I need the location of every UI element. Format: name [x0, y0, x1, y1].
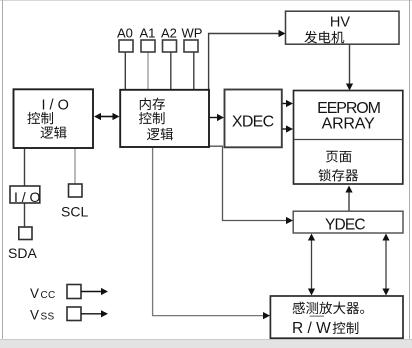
svg-text:A0: A0	[117, 26, 133, 41]
svg-text:R / W: R / W	[292, 320, 331, 337]
svg-text:EEPROM: EEPROM	[317, 100, 381, 117]
svg-text:WP: WP	[182, 26, 203, 41]
svg-text:A2: A2	[161, 26, 177, 41]
svg-text:YDEC: YDEC	[325, 217, 365, 234]
svg-text:I / O: I / O	[14, 189, 41, 205]
svg-text:SDA: SDA	[8, 245, 37, 261]
svg-text:XDEC: XDEC	[232, 114, 274, 131]
svg-text:HV: HV	[330, 14, 350, 30]
svg-text:V: V	[30, 286, 39, 301]
svg-text:I / O: I / O	[42, 97, 69, 113]
svg-text:SS: SS	[41, 312, 55, 323]
svg-text:SCL: SCL	[61, 204, 88, 220]
svg-text:CC: CC	[41, 290, 56, 301]
svg-text:ARRAY: ARRAY	[322, 116, 375, 133]
svg-text:A1: A1	[140, 26, 156, 41]
svg-text:V: V	[30, 308, 39, 323]
